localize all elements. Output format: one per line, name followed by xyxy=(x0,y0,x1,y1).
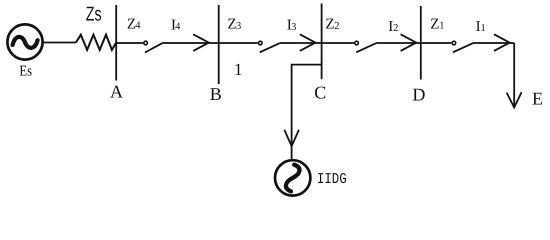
resistor Zs xyxy=(76,35,116,50)
switch S3 blade xyxy=(260,43,280,52)
wire to arrow I3 xyxy=(279,42,354,44)
bus C xyxy=(321,4,323,80)
feeder end drop wire xyxy=(513,43,515,108)
svg-text:1: 1 xyxy=(481,23,486,34)
svg-text:2: 2 xyxy=(393,23,398,34)
branch wire bus C to DG xyxy=(292,65,322,160)
svg-text:3: 3 xyxy=(291,22,296,33)
svg-text:Zs: Zs xyxy=(86,4,102,26)
wire to arrow I2 xyxy=(376,42,451,44)
svg-text:Z: Z xyxy=(325,17,334,33)
switch S2 hinge circle xyxy=(355,41,359,45)
switch S2 blade xyxy=(356,43,376,52)
switch S1 hinge circle xyxy=(452,41,456,45)
svg-text:IIDG: IIDG xyxy=(317,171,347,188)
switch S3 hinge circle xyxy=(259,41,263,45)
svg-text:Z: Z xyxy=(430,17,439,33)
svg-text:2: 2 xyxy=(334,21,339,32)
bus B xyxy=(218,5,220,84)
svg-text:A: A xyxy=(110,81,123,101)
wire bus A to switch xyxy=(116,42,143,44)
switch S4 blade xyxy=(145,43,162,52)
DG source circle IIDG xyxy=(275,160,310,195)
wire to corner E xyxy=(473,42,515,44)
svg-text:3: 3 xyxy=(236,21,241,32)
AC source Es xyxy=(7,24,42,59)
branch arrow to DG xyxy=(284,130,299,146)
current arrow I2 xyxy=(401,34,417,51)
current arrow I1 xyxy=(494,34,510,51)
svg-text:4: 4 xyxy=(175,21,181,32)
current arrow I3 xyxy=(300,34,316,51)
svg-text:E: E xyxy=(532,88,543,108)
svg-text:4: 4 xyxy=(135,21,141,32)
bus A xyxy=(115,5,117,81)
current arrow I4 xyxy=(193,34,209,51)
switch S4 hinge circle xyxy=(144,41,148,45)
switch S1 blade xyxy=(453,43,473,52)
svg-text:D: D xyxy=(412,85,425,105)
wire source to resistor xyxy=(43,42,76,44)
feeder end arrow E xyxy=(507,92,522,107)
wire to arrow I4 xyxy=(162,42,258,44)
svg-text:1: 1 xyxy=(439,21,444,32)
svg-text:C: C xyxy=(314,83,326,103)
svg-text:Es: Es xyxy=(19,64,32,80)
bus D xyxy=(420,6,422,80)
svg-text:1: 1 xyxy=(234,60,243,79)
svg-text:B: B xyxy=(210,84,222,104)
